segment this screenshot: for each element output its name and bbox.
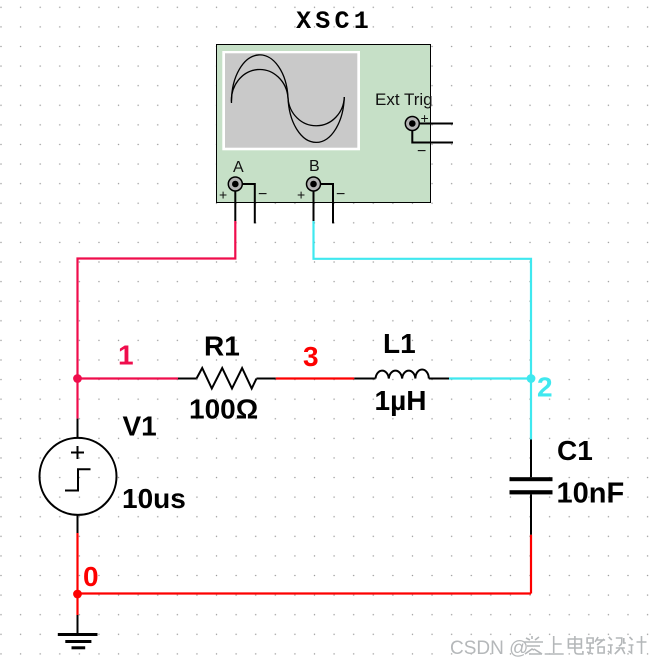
- resistor R1 zigzag: [197, 368, 257, 389]
- source V1 circle: [40, 438, 117, 515]
- svg-text:V1: V1: [123, 411, 157, 442]
- svg-text:3: 3: [303, 341, 319, 372]
- oscilloscope waveform trace 2: [231, 69, 344, 125]
- oscilloscope XSC1 body: [217, 45, 431, 203]
- svg-text:+: +: [219, 187, 227, 203]
- svg-text:1µH: 1µH: [375, 385, 427, 416]
- wire net 1: scope A to node 1 (crimson): [78, 221, 236, 379]
- source V1 step symbol: [65, 469, 91, 490]
- ground pin wire: [77, 615, 79, 635]
- watermark chinese glyphs: [524, 636, 647, 654]
- capacitor C1 bottom plate: [510, 490, 553, 494]
- inductor L1 humps: [376, 370, 429, 379]
- wire net 2: L1 right pin to node 2 (cyan): [449, 377, 531, 379]
- svg-text:CSDN @: CSDN @: [450, 638, 528, 659]
- svg-text:−: −: [258, 186, 267, 203]
- Ext Trig - wire stub: [412, 128, 453, 143]
- glyph she: [608, 637, 626, 654]
- ground bar 1: [58, 633, 98, 636]
- wire net 1: node 1 down to V1 + (crimson): [76, 379, 78, 419]
- svg-text:B: B: [309, 158, 320, 175]
- channel B connector: [307, 177, 321, 191]
- ground bar 2: [65, 640, 91, 643]
- wire net 1: node 1 to R1 left pin (crimson): [78, 377, 179, 379]
- glyph lu: [586, 637, 605, 654]
- channel A connector: [228, 177, 242, 191]
- Ext Trig connector: [405, 117, 419, 131]
- capacitor C1 top pin: [530, 440, 532, 478]
- resistor R1 pins: [178, 378, 276, 380]
- wire net 2: scope B to corner (cyan): [314, 221, 532, 379]
- wire net 0: node 0 to ground (red): [76, 594, 78, 615]
- channel A + pin wire: [234, 184, 236, 221]
- wire net 0: bottom horizontal run (red): [78, 592, 532, 594]
- channel B + pin wire: [313, 184, 315, 221]
- node 0 junction dot: [73, 590, 82, 599]
- node 2 junction dot: [527, 374, 536, 383]
- oscilloscope screen: [222, 51, 360, 150]
- oscilloscope waveform trace 1: [231, 55, 344, 142]
- channel A - stub wire: [240, 184, 255, 223]
- source V1 plus sign: [71, 446, 84, 459]
- svg-text:2: 2: [537, 372, 553, 403]
- glyph ai: [524, 636, 543, 654]
- svg-text:+: +: [421, 110, 429, 126]
- inductor L1 pins: [354, 378, 449, 380]
- svg-text:A: A: [233, 159, 244, 176]
- svg-text:0: 0: [83, 561, 99, 592]
- source V1 bottom pin: [77, 515, 79, 533]
- glyph dian: [568, 636, 583, 654]
- glyph ji: [629, 636, 647, 654]
- Ext Trig + wire stub: [419, 123, 453, 125]
- svg-text:R1: R1: [204, 331, 240, 362]
- wire net 3: R1 right pin to L1 left pin (red): [276, 377, 355, 379]
- svg-text:10us: 10us: [122, 483, 186, 514]
- wire net 2: node 2 down to C1 (cyan): [530, 379, 532, 440]
- channel B - stub wire: [318, 184, 333, 223]
- ground bar 3: [72, 646, 86, 649]
- svg-text:100Ω: 100Ω: [189, 394, 258, 425]
- svg-text:−: −: [336, 186, 345, 203]
- svg-text:+: +: [297, 187, 305, 203]
- source V1 top pin: [77, 419, 79, 439]
- svg-text:Ext Trig: Ext Trig: [375, 90, 433, 109]
- wire net 0: C1 bottom to node 0 rail (red): [530, 535, 532, 594]
- svg-text:10nF: 10nF: [557, 478, 625, 510]
- svg-text:C1: C1: [557, 435, 593, 466]
- capacitor C1 bottom pin: [530, 494, 532, 534]
- wire net 0: V1 bottom to node 0 (red): [76, 533, 78, 594]
- svg-text:XSC1: XSC1: [296, 7, 373, 36]
- capacitor C1 top plate: [510, 477, 553, 481]
- svg-text:1: 1: [118, 340, 134, 371]
- svg-text:−: −: [417, 143, 426, 160]
- node 1 junction dot: [73, 374, 82, 383]
- glyph shang: [545, 636, 564, 654]
- svg-text:L1: L1: [383, 328, 416, 359]
